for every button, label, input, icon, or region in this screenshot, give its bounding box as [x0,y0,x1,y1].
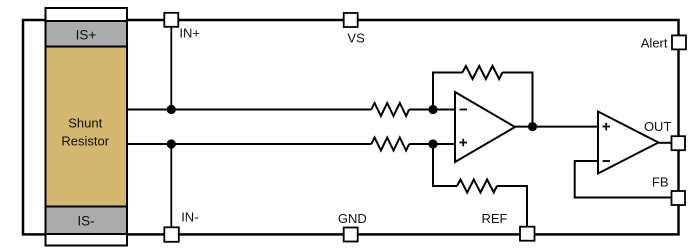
wire R4 to REF pin [497,186,527,227]
wire node D to IN- pin [170,144,172,228]
svg-text:FB: FB [652,174,669,189]
op-amp U2 [598,112,659,174]
svg-text:IS-: IS- [77,213,94,228]
svg-text:REF: REF [482,211,508,226]
shunt package body [46,8,128,246]
svg-text:IS+: IS+ [76,28,97,43]
wire shunt top to input resistor R1 [126,109,371,111]
resistor R2 (bottom input) [371,138,409,151]
svg-text:GND: GND [338,211,367,226]
node B junction dot (U1 inverting) [428,105,437,114]
pin GND pad [344,228,358,242]
wire U2 feedback to FB pin [575,161,672,198]
wire shunt bottom to input resistor R2 [126,143,371,145]
wire R1 to op-amp U1 inverting input [409,109,456,111]
node C junction dot (U1 non-inverting) [428,139,437,148]
IC boundary box [23,20,679,234]
pin IN+ pad [164,13,178,27]
svg-text:Shunt: Shunt [68,116,102,131]
pin FB pad [672,191,686,205]
svg-text:VS: VS [347,30,365,45]
IS+ terminal block [46,21,128,47]
pin Alert pad [672,35,686,49]
wire U1 output to U2 input [515,126,598,128]
resistor R3 (feedback) [462,66,502,79]
resistor R1 (top input) [371,103,409,116]
svg-text:IN-: IN- [181,210,198,225]
pin OUT pad [672,136,686,150]
wire feedback to output node [502,73,532,128]
node D junction dot [167,139,176,148]
wire U2 output to OUT pin [659,142,673,144]
svg-text:OUT: OUT [644,119,672,134]
wire IN+ pin to node A [170,26,172,110]
resistor R4 (REF) [457,180,497,193]
pin VS pad [344,13,358,27]
pin REF pad [520,227,535,241]
wire R2 to op-amp U1 non-inverting input [409,143,456,145]
svg-text:Resistor: Resistor [61,134,109,149]
shunt resistor body [46,47,128,207]
pin IN- pad [164,227,179,242]
node OUT1 junction dot (U1 output) [528,122,537,131]
op-amp U1 [455,92,515,162]
node A junction dot [167,105,176,114]
wire feedback loop up and across [433,73,462,110]
IS- terminal block [46,207,128,235]
svg-text:Alert: Alert [641,36,668,51]
wire REF branch down [433,144,457,186]
svg-text:IN+: IN+ [179,25,200,40]
